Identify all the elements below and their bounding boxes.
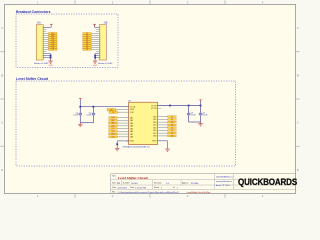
svg-text:0.1uF: 0.1uF (86, 115, 92, 117)
svg-text:SCK: SCK (112, 123, 115, 125)
svg-text:1DIR: 1DIR (130, 109, 135, 111)
svg-text:J1A: J1A (37, 22, 41, 25)
svg-text:QUICKBOARDS LLC: QUICKBOARDS LLC (216, 176, 234, 179)
svg-text:IO13: IO13 (112, 128, 115, 130)
svg-text:GND: GND (152, 141, 157, 143)
svg-text:B: B (1, 73, 3, 77)
svg-text:IO12: IO12 (112, 125, 115, 127)
svg-text:LevelShifterCircuit.SchDoc: LevelShifterCircuit.SchDoc (187, 191, 211, 194)
svg-text:LV2: LV2 (171, 119, 173, 121)
svg-text:Level Shifter Circuit: Level Shifter Circuit (117, 176, 149, 180)
svg-text:VCCA: VCCA (130, 105, 136, 108)
svg-text:C: C (1, 121, 3, 125)
svg-text:IO16: IO16 (112, 136, 115, 138)
svg-text:0.1uF: 0.1uF (73, 115, 79, 117)
svg-text:File:: File: (112, 192, 116, 194)
svg-text:A: A (1, 26, 3, 30)
svg-text:QUICKBOARDS: QUICKBOARDS (238, 177, 297, 188)
svg-text:GND: GND (130, 141, 135, 143)
svg-text:OE: OE (86, 49, 88, 51)
svg-text:LV7: LV7 (171, 133, 173, 135)
svg-text:C: C (297, 121, 299, 125)
svg-text:VCCB: VCCB (151, 105, 157, 107)
svg-text:1OE: 1OE (130, 112, 135, 114)
svg-text:Header 16 2x8P: Header 16 2x8P (98, 63, 113, 65)
svg-text:LV6: LV6 (171, 130, 173, 132)
svg-text:Number: Number (123, 182, 130, 184)
svg-text:IO17: IO17 (51, 49, 54, 51)
svg-text:www.quickboards.io: www.quickboards.io (216, 181, 232, 183)
svg-text:IO15: IO15 (112, 134, 115, 136)
svg-text:0.1uF: 0.1uF (203, 115, 209, 117)
svg-text:LS-001: LS-001 (131, 183, 139, 185)
svg-text:B: B (297, 73, 299, 77)
svg-text:OE: OE (112, 112, 114, 114)
svg-text:LV1: LV1 (171, 116, 173, 118)
svg-text:Austin, TX 78701: Austin, TX 78701 (216, 184, 230, 187)
svg-text:VCCB: VCCB (151, 108, 157, 110)
svg-text:J1B: J1B (104, 23, 108, 25)
svg-text:LV5: LV5 (171, 127, 173, 129)
svg-text:C:\Users\quickboards\Documents: C:\Users\quickboards\Documents\Projects\… (118, 191, 180, 194)
svg-text:Breakout Connectors: Breakout Connectors (16, 10, 51, 14)
svg-text:1:23:25 PM: 1:23:25 PM (135, 187, 146, 189)
svg-text:Header 16 2x8P: Header 16 2x8P (34, 63, 49, 65)
svg-text:2/27/2023: 2/27/2023 (118, 187, 128, 189)
svg-text:LV4: LV4 (171, 125, 173, 127)
svg-text:SN74ALVC164245DGGR-Q1: SN74ALVC164245DGGR-Q1 (123, 146, 151, 149)
svg-text:Approx: Approx (182, 181, 188, 184)
svg-text:GND: GND (93, 65, 98, 67)
svg-text:Revision: Revision (154, 182, 162, 184)
svg-text:D: D (1, 168, 3, 172)
svg-text:Level Shifter Circuit: Level Shifter Circuit (16, 77, 49, 81)
svg-text:D: D (297, 168, 299, 172)
svg-text:A: A (297, 26, 299, 30)
svg-text:LV3: LV3 (171, 122, 173, 124)
svg-text:Sheet: Sheet (154, 186, 160, 189)
svg-text:GND: GND (48, 65, 53, 67)
svg-text:0.1uF: 0.1uF (191, 115, 197, 117)
svg-text:IO14: IO14 (112, 131, 115, 133)
svg-text:W 5486: W 5486 (191, 183, 199, 185)
svg-text:LV8: LV8 (171, 136, 173, 138)
